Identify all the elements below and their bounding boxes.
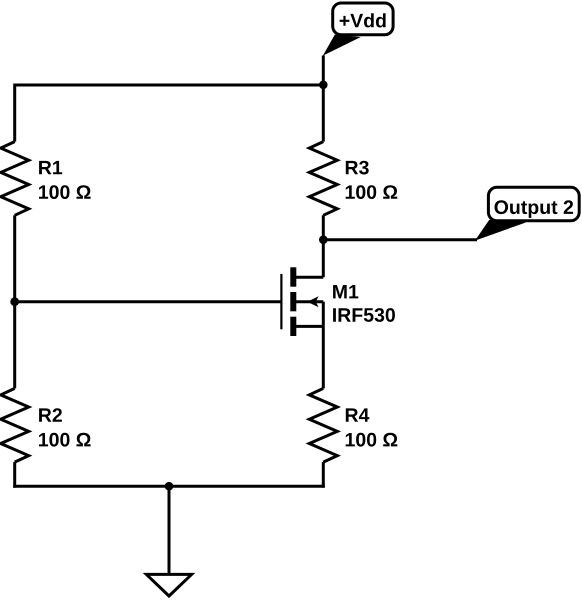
flag Output 2 text	[495, 200, 574, 218]
wire left rail middle	[13, 215, 16, 388]
value R4 100 Ohm	[346, 433, 398, 447]
resistor R1	[1, 142, 29, 216]
wire left rail upper	[13, 84, 16, 142]
node ground junction	[165, 482, 174, 491]
label M1	[333, 285, 358, 298]
wire top rail	[15, 84, 324, 87]
transistor M1 gate bar	[280, 274, 282, 329]
label R4	[346, 408, 370, 421]
transistor M1 channel bottom	[290, 317, 296, 336]
node Vdd junction	[319, 81, 328, 90]
wire left rail lower	[13, 462, 16, 488]
wire output	[323, 238, 477, 241]
resistor R3	[309, 142, 337, 216]
transistor M1 source lead	[293, 325, 323, 328]
label R2	[39, 408, 62, 422]
wire bottom rail	[13, 485, 325, 488]
net flag +Vdd text	[340, 13, 386, 27]
node output junction	[319, 235, 328, 244]
transistor M1 body lead	[296, 300, 323, 303]
label R1	[39, 161, 62, 174]
wire R4 to bottom rail	[322, 462, 325, 488]
ground	[146, 574, 191, 596]
node gate junction	[10, 297, 19, 306]
flag Output 2 tail	[475, 220, 527, 241]
transistor M1 drain lead	[293, 276, 323, 279]
label R3	[346, 161, 369, 175]
resistor R4	[309, 388, 337, 462]
value R1 100 Ohm	[39, 185, 91, 199]
resistor R2	[1, 388, 29, 462]
wire gate lead	[15, 300, 282, 303]
value R3 100 Ohm	[346, 185, 398, 199]
value R2 100 Ohm	[39, 433, 91, 447]
flag Output 2 box	[488, 187, 579, 221]
wire R3 to drain	[322, 215, 325, 277]
wire ground stem	[168, 486, 171, 575]
net flag +Vdd box	[333, 3, 393, 35]
transistor M1 body-source link	[322, 302, 325, 327]
wire source to R4	[322, 326, 325, 388]
transistor M1 channel middle	[290, 292, 296, 311]
wire Vdd drop	[322, 56, 325, 142]
net flag +Vdd tail	[322, 35, 361, 58]
value M1 IRF530	[333, 308, 395, 322]
transistor M1 channel top	[290, 267, 296, 286]
transistor M1 body arrow	[307, 296, 318, 307]
